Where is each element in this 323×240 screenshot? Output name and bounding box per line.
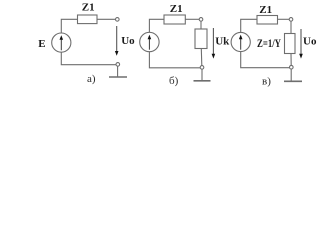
svg-text:б): б): [169, 75, 179, 87]
svg-text:в): в): [262, 75, 271, 87]
svg-text:Z=1/Y: Z=1/Y: [257, 38, 282, 50]
svg-text:Uo: Uo: [121, 35, 135, 47]
svg-text:a): a): [87, 73, 96, 85]
svg-text:E: E: [38, 38, 45, 50]
svg-text:Z1: Z1: [82, 1, 95, 13]
svg-text:Z1: Z1: [170, 3, 183, 15]
svg-text:Uo: Uo: [303, 35, 317, 47]
svg-text:Uk: Uk: [215, 35, 230, 47]
svg-text:Z1: Z1: [259, 4, 272, 16]
